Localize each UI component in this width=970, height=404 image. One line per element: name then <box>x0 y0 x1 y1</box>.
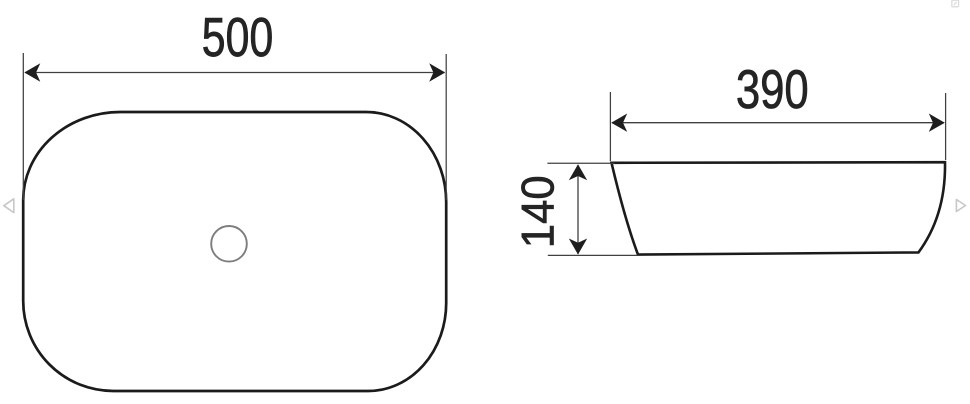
extension line left (500 dim) <box>22 53 24 200</box>
extension line right (500 dim) <box>445 54 447 200</box>
extension line left (390 dim) <box>609 92 611 161</box>
basin top view outline <box>23 112 446 391</box>
dimension text 500 <box>203 18 271 57</box>
dimension line 140 <box>577 165 579 254</box>
arrowhead down (140 dim) <box>569 239 587 255</box>
arrowhead right (390 dim) <box>929 114 945 132</box>
side view outline <box>612 162 946 254</box>
dimension line 500 <box>25 72 445 74</box>
dimension text 390 <box>738 70 807 109</box>
extension line bottom (140 dim) <box>548 254 638 256</box>
dimension text 140 (rotated) <box>521 177 554 245</box>
expand icon top-right <box>952 0 959 7</box>
extension line top (140 dim) <box>547 162 614 164</box>
extension line right (390 dim) <box>945 93 947 160</box>
arrowhead left (500 dim) <box>24 63 40 81</box>
carousel arrow left <box>4 199 14 213</box>
arrowhead right (500 dim) <box>429 63 445 81</box>
carousel arrow right <box>956 200 965 212</box>
arrowhead left (390 dim) <box>611 114 627 132</box>
arrowhead up (140 dim) <box>569 164 587 180</box>
drain hole circle <box>211 226 247 262</box>
dimension line 390 <box>612 122 944 124</box>
